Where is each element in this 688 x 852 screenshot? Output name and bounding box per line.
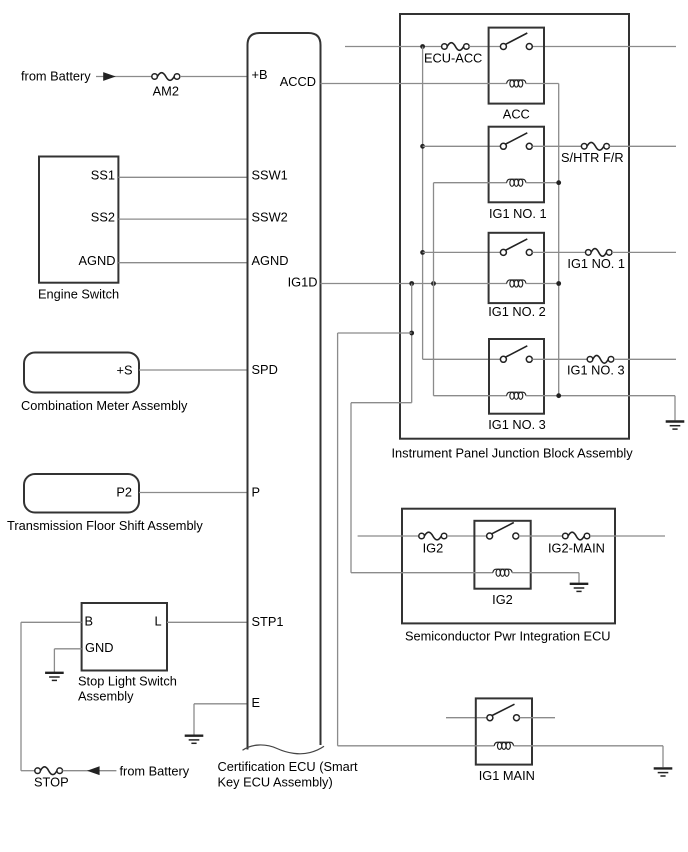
transmission floor shift assembly label <box>7 518 203 533</box>
svg-text:IG1 NO. 2: IG1 NO. 2 <box>488 304 546 319</box>
wire IG1D down branch vertical <box>411 284 413 403</box>
engine switch label <box>38 287 119 302</box>
svg-text:L: L <box>155 613 162 628</box>
ground (ECU E pin) <box>185 736 204 744</box>
wire from Battery to +B fuse AM2 <box>96 76 152 78</box>
svg-text:Assembly: Assembly <box>78 689 134 704</box>
relay IG1 NO.1 label <box>489 206 547 221</box>
wire IG1 MAIN coil feed <box>338 745 495 747</box>
combination meter assembly block <box>24 353 139 393</box>
pin SSW2 label <box>252 210 288 225</box>
relay IG1 NO.2 box <box>489 233 544 303</box>
fuse IG1 NO.3 value label <box>567 363 625 378</box>
stop light switch assembly block <box>82 603 167 671</box>
node junction dot IG1 NO.1 coil / bus <box>556 180 561 185</box>
svg-text:IG1 NO. 3: IG1 NO. 3 <box>488 417 546 432</box>
node from Battery label (bottom) <box>120 763 190 778</box>
semiconductor pwr integration ECU label <box>405 629 611 644</box>
ground (IG1 MAIN coil) <box>654 768 673 776</box>
node junction dot IG1D / coil branch <box>431 281 436 286</box>
relay IG1 NO.3 switch contacts <box>500 346 532 363</box>
relay IG1 NO.3 box <box>489 339 544 414</box>
svg-text:ACC: ACC <box>503 106 530 121</box>
wire IG1 NO.3 fuse to right edge <box>614 358 676 360</box>
wire IG1D to IG1 NO.2 coil <box>321 283 508 285</box>
certification ECU block U1 <box>243 33 325 754</box>
svg-text:Certification ECU (Smart: Certification ECU (Smart <box>218 759 359 774</box>
fuse IG2-MAIN <box>563 532 590 540</box>
relay IG1 NO.1 box <box>489 127 544 203</box>
wire +S to SPD <box>139 369 248 371</box>
wire branch to IG2 (vertical) <box>350 403 352 573</box>
wire IG1 NO.1 fuse to right edge <box>612 251 676 253</box>
svg-text:IG2: IG2 <box>423 540 444 555</box>
relay ACC switch contacts <box>500 33 532 50</box>
svg-text:IG1 MAIN: IG1 MAIN <box>479 768 535 783</box>
relay IG1 MAIN coil L6 <box>494 742 513 749</box>
fuse ECU-ACC <box>442 43 470 51</box>
svg-text:IG1D: IG1D <box>288 275 318 290</box>
wire ACCD to ACC coil <box>321 83 507 85</box>
pin AGND label (ECU) <box>252 253 289 268</box>
svg-text:P2: P2 <box>116 485 132 500</box>
fuse AM2 <box>152 73 180 81</box>
wire coil ground bus vertical <box>558 84 560 396</box>
pin GND label <box>85 640 113 655</box>
wire IG2 coil to ground <box>512 573 579 583</box>
engine switch block ES1 <box>39 157 118 283</box>
svg-text:IG1 NO. 1: IG1 NO. 1 <box>489 206 547 221</box>
wire IG1 MAIN coil to ground <box>514 746 664 767</box>
ground (stop light switch) <box>45 673 64 681</box>
relay IG2 switch contacts <box>487 523 519 540</box>
wire IG1 NO.3 relay to fuse IG1 NO.3 <box>532 358 587 360</box>
wire ACC feed (free end to fuse ECU-ACC) <box>345 46 442 48</box>
relay IG1 NO.1 switch contacts <box>500 133 532 150</box>
wire ACC coil to coil bus <box>526 83 559 85</box>
fuse AM2 value label <box>153 84 179 99</box>
wire S/HTR F/R fuse to right edge <box>609 145 676 147</box>
arrow from Battery (top) <box>103 72 116 81</box>
svg-text:STP1: STP1 <box>252 614 284 629</box>
node junction dot IG1 NO.2 switch feed <box>420 250 425 255</box>
relay ACC box <box>489 28 544 104</box>
wire IG1 NO.2 coil to coil bus <box>526 283 559 285</box>
node junction dot IG1 NO.3 coil / bus <box>556 393 561 398</box>
certification ECU label line1 <box>218 759 359 774</box>
wire AGND to AGND <box>118 262 247 264</box>
relay IG1 MAIN switch contacts <box>487 704 520 721</box>
svg-text:SSW2: SSW2 <box>252 210 288 225</box>
wire E to ground <box>194 704 248 735</box>
node junction dot IG1 NO.1 switch feed <box>420 144 425 149</box>
svg-text:AM2: AM2 <box>153 84 179 99</box>
instrument panel junction block assembly box <box>400 14 629 439</box>
wire SS2 to SSW2 <box>118 218 247 220</box>
wire ECU-ACC fuse to ACC relay contact <box>469 46 500 48</box>
svg-text:+B: +B <box>252 67 268 82</box>
svg-text:Semiconductor Pwr Integration: Semiconductor Pwr Integration ECU <box>405 629 611 644</box>
wire IG1D branch to IG1 NO.3 coil <box>434 395 508 397</box>
relay IG1 MAIN label <box>479 768 535 783</box>
svg-text:ACCD: ACCD <box>280 74 316 89</box>
fuse IG1-NO3 <box>587 355 614 363</box>
wire IG1D branch to IG1 NO.1 coil <box>434 182 508 184</box>
relay IG2 box <box>474 521 530 589</box>
wire IG2 fuse to IG2 relay contact <box>447 535 487 537</box>
relay IG1 NO.2 switch contacts <box>500 239 532 256</box>
wire feed to IG1 NO.1 contact <box>423 145 501 147</box>
wire IG1 MAIN switch stub left <box>446 717 487 719</box>
svg-text:SS1: SS1 <box>91 168 115 183</box>
pin P label <box>252 485 261 500</box>
svg-text:Transmission Floor Shift Assem: Transmission Floor Shift Assembly <box>7 518 203 533</box>
relay IG2 label <box>492 592 513 607</box>
wire feed to IG1 NO.2 contact <box>423 251 501 253</box>
wire IG1D coil branch vertical <box>433 183 435 396</box>
svg-text:SS2: SS2 <box>91 210 115 225</box>
pin STP1 label <box>252 614 284 629</box>
pin IG1D label <box>288 275 318 290</box>
pin ACCD label <box>280 74 316 89</box>
svg-text:IG2: IG2 <box>492 592 513 607</box>
relay IG1 NO.2 label <box>488 304 546 319</box>
relay IG2 coil L5 <box>493 569 512 576</box>
relay IG1 NO.3 label <box>488 417 546 432</box>
pin E label <box>252 695 261 710</box>
svg-text:IG2-MAIN: IG2-MAIN <box>548 540 605 555</box>
svg-text:IG1 NO. 1: IG1 NO. 1 <box>567 256 625 271</box>
fuse IG2 value label <box>423 540 444 555</box>
fuse STOP value label <box>34 775 69 790</box>
wire branch to IG1 MAIN (vertical) <box>337 333 339 746</box>
svg-text:B: B <box>85 613 94 628</box>
wire STOP fuse riser <box>21 770 35 772</box>
pin SSW1 label <box>252 168 288 183</box>
svg-text:SPD: SPD <box>252 362 278 377</box>
fuse IG1-NO1 <box>586 249 613 257</box>
svg-text:Stop Light Switch: Stop Light Switch <box>78 674 177 689</box>
node junction dot down branch split <box>409 331 414 336</box>
pin AGND label (engine switch) <box>79 253 116 268</box>
wire IG1 MAIN switch stub right <box>520 717 556 719</box>
arrow from Battery (bottom) <box>87 766 100 775</box>
relay IG1 NO.2 coil L3 <box>507 280 526 287</box>
pin L label <box>155 613 162 628</box>
fuse STOP <box>35 767 63 775</box>
wire feed to IG1 NO.3 contact <box>423 358 501 360</box>
transmission floor shift assembly block <box>24 474 139 513</box>
wire IG1 NO.3 coil to ground <box>526 396 675 421</box>
svg-text:Instrument Panel Junction Bloc: Instrument Panel Junction Block Assembly <box>392 445 634 460</box>
svg-text:E: E <box>252 695 261 710</box>
stop light switch label line2 <box>78 689 134 704</box>
wire SS1 to SSW1 <box>118 176 247 178</box>
svg-text:S/HTR F/R: S/HTR F/R <box>561 150 624 165</box>
wire branch to IG2 (horizontal) <box>351 402 412 404</box>
certification ECU label line2 <box>218 775 333 790</box>
fuse S/HTR F/R value label <box>561 150 624 165</box>
relay IG1 MAIN box <box>476 698 532 764</box>
svg-text:Combination Meter Assembly: Combination Meter Assembly <box>21 398 188 413</box>
pin SS2 label <box>91 210 115 225</box>
svg-text:+S: +S <box>116 363 132 378</box>
wire P2 to P <box>139 492 248 494</box>
svg-text:ECU-ACC: ECU-ACC <box>424 50 482 65</box>
svg-text:STOP: STOP <box>34 775 69 790</box>
wire branch to IG1 MAIN (horizontal) <box>338 332 412 334</box>
wire L to STP1 <box>167 621 248 623</box>
relay ACC label <box>503 106 530 121</box>
wire B to STOP fuse (left+down) <box>21 622 82 770</box>
wire IG1 NO.2 relay to fuse IG1 NO.1 <box>532 251 585 253</box>
wire ACC relay to right edge <box>532 46 676 48</box>
fuse IG2-MAIN value label <box>548 540 605 555</box>
fuse S-HTR-F/R <box>581 142 609 150</box>
svg-text:from Battery: from Battery <box>120 763 190 778</box>
fuse ECU-ACC value label <box>424 50 482 65</box>
pin +S label <box>116 363 132 378</box>
svg-text:from Battery: from Battery <box>21 68 91 83</box>
ground (IG2 coil) <box>570 584 589 592</box>
wire IG2 coil feed <box>351 572 493 574</box>
stop light switch label line1 <box>78 674 177 689</box>
ground (junction block coils) <box>666 422 685 430</box>
wire GND to ground <box>54 649 81 672</box>
semiconductor pwr integration ECU box <box>402 509 615 624</box>
svg-text:SSW1: SSW1 <box>252 168 288 183</box>
node junction dot IG1D / down branch <box>409 281 414 286</box>
relay IG1 NO.3 coil L4 <box>507 392 526 399</box>
pin P2 label <box>116 485 132 500</box>
wire switch feed bus vertical <box>422 47 424 360</box>
wire IG2 relay to fuse IG2-MAIN <box>518 535 562 537</box>
wire IG1 NO.1 relay to fuse S/HTR F/R <box>532 145 581 147</box>
fuse IG2 <box>419 532 447 540</box>
wire IG2 feed (free end to fuse IG2) <box>358 535 419 537</box>
wire STOP fuse to arrow <box>63 770 117 772</box>
svg-text:AGND: AGND <box>252 253 289 268</box>
pin +B label <box>252 67 268 82</box>
svg-text:AGND: AGND <box>79 253 116 268</box>
relay IG1 NO.1 coil L2 <box>507 179 526 186</box>
pin SPD label <box>252 362 278 377</box>
wire IG1 NO.1 coil to coil bus <box>526 182 559 184</box>
node junction dot IG1 NO.2 coil / bus <box>556 281 561 286</box>
relay ACC coil L1 <box>507 80 526 87</box>
svg-text:GND: GND <box>85 640 113 655</box>
svg-text:Key ECU Assembly): Key ECU Assembly) <box>218 775 333 790</box>
fuse IG1 NO.1 value label <box>567 256 625 271</box>
wire IG2-MAIN fuse to right <box>590 535 665 537</box>
combination meter assembly label <box>21 398 188 413</box>
svg-text:P: P <box>252 485 261 500</box>
svg-text:Engine Switch: Engine Switch <box>38 287 119 302</box>
node junction dot ACC feed / bus <box>420 44 425 49</box>
pin B label <box>85 613 94 628</box>
wire AM2 to +B pin <box>180 76 248 78</box>
pin SS1 label <box>91 168 115 183</box>
instrument panel junction block assembly label <box>392 445 634 460</box>
node from Battery label (top) <box>21 68 91 83</box>
svg-text:IG1 NO. 3: IG1 NO. 3 <box>567 363 625 378</box>
